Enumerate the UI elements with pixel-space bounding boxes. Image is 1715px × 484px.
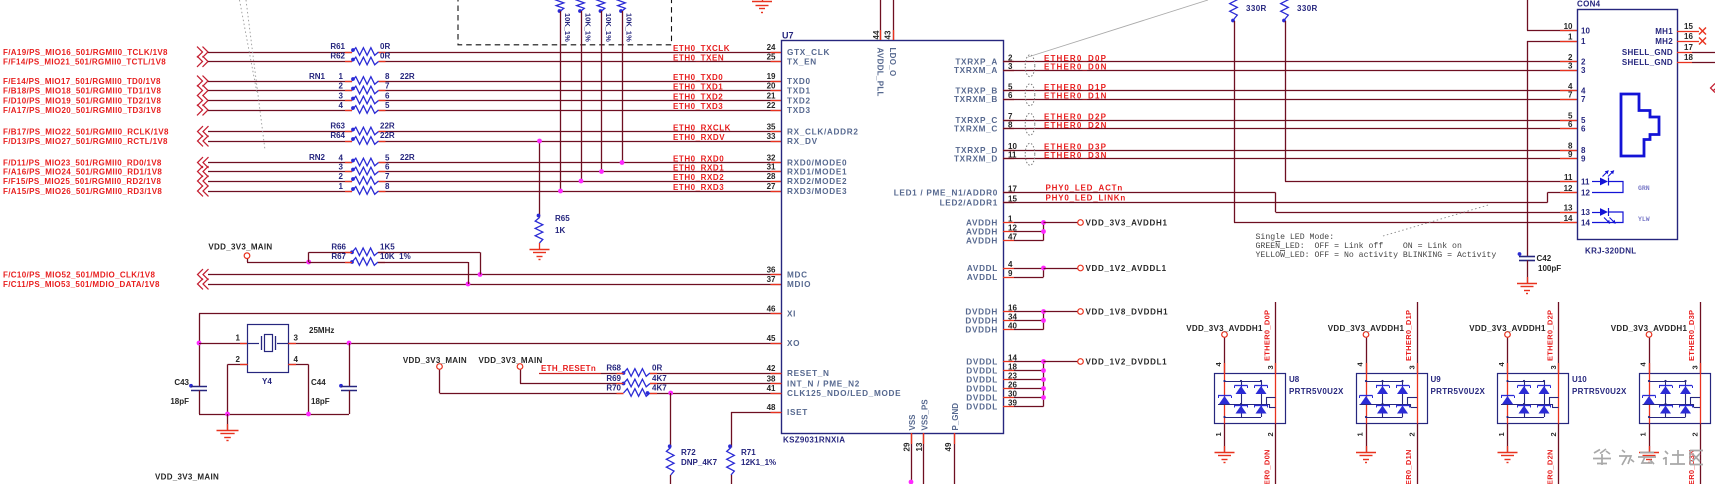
svg-text:F/D11/PS_MIO23_501/RGMII0_RD0/: F/D11/PS_MIO23_501/RGMII0_RD0/1V8 xyxy=(3,158,162,167)
svg-text:U9: U9 xyxy=(1431,375,1442,384)
svg-text:7: 7 xyxy=(385,82,390,91)
svg-text:Single LED Mode:: Single LED Mode: xyxy=(1256,232,1335,242)
svg-text:9: 9 xyxy=(1008,269,1013,278)
svg-text:1: 1 xyxy=(236,333,241,342)
svg-text:1K: 1K xyxy=(555,226,565,235)
svg-text:F/C11/PS_MIO53_501/MDIO_DATA/1: F/C11/PS_MIO53_501/MDIO_DATA/1V8 xyxy=(3,280,160,289)
svg-text:7: 7 xyxy=(1581,95,1586,104)
svg-text:27: 27 xyxy=(767,182,776,191)
svg-text:0R: 0R xyxy=(652,364,662,373)
svg-text:13: 13 xyxy=(1581,208,1590,217)
svg-text:ETH0_RXDV: ETH0_RXDV xyxy=(673,133,725,142)
svg-text:C42: C42 xyxy=(1537,254,1552,263)
svg-text:4: 4 xyxy=(339,101,344,110)
svg-text:F/A15/PS_MIO26_501/RGMII0_RD3/: F/A15/PS_MIO26_501/RGMII0_RD3/1V8 xyxy=(3,187,162,196)
svg-text:10K_1%: 10K_1% xyxy=(563,13,572,42)
svg-text:ETH0_TXD0: ETH0_TXD0 xyxy=(673,73,723,82)
svg-text:6: 6 xyxy=(385,163,390,172)
svg-text:F/F14/PS_MIO21_501/RGMII0_TCTL: F/F14/PS_MIO21_501/RGMII0_TCTL/1V8 xyxy=(3,57,166,66)
svg-text:ETHER0_D2N: ETHER0_D2N xyxy=(1546,449,1555,484)
svg-text:2: 2 xyxy=(339,172,344,181)
svg-text:RESET_N: RESET_N xyxy=(787,369,830,378)
svg-text:2: 2 xyxy=(1266,432,1275,436)
svg-text:SHELL_GND: SHELL_GND xyxy=(1622,58,1673,67)
svg-text:VDD_1V8_DVDDH1: VDD_1V8_DVDDH1 xyxy=(1086,308,1169,317)
svg-text:100pF: 100pF xyxy=(1538,264,1561,273)
svg-text:DVDDL: DVDDL xyxy=(966,402,998,411)
svg-text:TXD0: TXD0 xyxy=(787,77,811,86)
svg-text:25MHz: 25MHz xyxy=(309,326,334,335)
svg-text:ETH0_TXCLK: ETH0_TXCLK xyxy=(673,44,730,53)
svg-text:9: 9 xyxy=(1568,150,1573,159)
svg-text:48: 48 xyxy=(767,403,776,412)
svg-text:11: 11 xyxy=(1564,173,1573,182)
svg-text:F/D13/PS_MIO27_501/RGMII0_RCTL: F/D13/PS_MIO27_501/RGMII0_RCTL/1V8 xyxy=(3,137,168,146)
svg-text:VDD_3V3_AVDDH1: VDD_3V3_AVDDH1 xyxy=(1186,324,1263,333)
svg-text:3: 3 xyxy=(294,333,299,342)
svg-text:DVDDL: DVDDL xyxy=(966,375,998,384)
svg-text:ETHER0_D1N: ETHER0_D1N xyxy=(1404,449,1413,484)
svg-text:16: 16 xyxy=(1684,32,1693,41)
svg-text:LED1 / PME_N1/ADDR0: LED1 / PME_N1/ADDR0 xyxy=(894,188,998,197)
svg-text:18pF: 18pF xyxy=(170,397,189,406)
svg-text:2: 2 xyxy=(1549,432,1558,436)
svg-text:3: 3 xyxy=(1691,365,1700,369)
svg-text:VDD_3V3_MAIN: VDD_3V3_MAIN xyxy=(208,242,272,251)
svg-text:17: 17 xyxy=(1684,43,1693,52)
svg-text:ETH0_TXD3: ETH0_TXD3 xyxy=(673,102,723,111)
svg-text:42: 42 xyxy=(767,364,776,373)
svg-text:8: 8 xyxy=(385,72,390,81)
svg-text:29: 29 xyxy=(903,442,912,451)
svg-text:RN2: RN2 xyxy=(309,153,326,162)
svg-text:ETHER0_D1N: ETHER0_D1N xyxy=(1044,91,1108,100)
svg-text:4K7: 4K7 xyxy=(652,384,667,393)
svg-text:ETH0_TXEN: ETH0_TXEN xyxy=(673,53,724,62)
svg-text:U7: U7 xyxy=(782,31,794,41)
svg-text:R67: R67 xyxy=(331,252,346,261)
svg-text:2: 2 xyxy=(1408,432,1417,436)
svg-text:TX_EN: TX_EN xyxy=(787,57,817,66)
svg-text:R68: R68 xyxy=(606,364,621,373)
svg-text:ETHER0_D3N: ETHER0_D3N xyxy=(1687,449,1696,484)
svg-text:R70: R70 xyxy=(606,384,621,393)
svg-text:44: 44 xyxy=(872,30,881,39)
svg-text:41: 41 xyxy=(767,384,776,393)
svg-text:4K7: 4K7 xyxy=(652,374,667,383)
svg-text:VDD_3V3_AVDDH1: VDD_3V3_AVDDH1 xyxy=(1328,324,1405,333)
svg-text:RXD1/MODE1: RXD1/MODE1 xyxy=(787,167,847,176)
svg-text:13: 13 xyxy=(1564,204,1573,213)
svg-text:11: 11 xyxy=(1581,177,1590,186)
svg-text:45: 45 xyxy=(767,334,776,343)
svg-text:3: 3 xyxy=(1266,365,1275,369)
svg-text:18: 18 xyxy=(1684,53,1693,62)
svg-text:U10: U10 xyxy=(1572,375,1587,384)
svg-text:RX_DV: RX_DV xyxy=(787,137,818,146)
svg-text:CON4: CON4 xyxy=(1577,0,1601,9)
svg-text:LDO_O: LDO_O xyxy=(888,48,897,77)
svg-text:F/F15/PS_MIO25_501/RGMII0_RD2/: F/F15/PS_MIO25_501/RGMII0_RD2/1V8 xyxy=(3,177,161,186)
svg-text:DVDDH: DVDDH xyxy=(965,316,998,325)
svg-text:MDC: MDC xyxy=(787,270,808,279)
svg-text:3: 3 xyxy=(1568,62,1573,71)
svg-text:PHY0_LED_LINKn: PHY0_LED_LINKn xyxy=(1046,194,1127,203)
svg-text:6: 6 xyxy=(1581,124,1586,133)
svg-text:10K 1%: 10K 1% xyxy=(380,252,411,261)
svg-text:1: 1 xyxy=(1581,37,1586,46)
svg-text:PRTR5V0U2X: PRTR5V0U2X xyxy=(1572,387,1627,396)
svg-text:GRN: GRN xyxy=(1638,185,1650,192)
svg-text:MH2: MH2 xyxy=(1655,37,1673,46)
svg-text:ETHER0_D0P: ETHER0_D0P xyxy=(1263,310,1272,361)
svg-text:6: 6 xyxy=(1008,91,1013,100)
svg-text:KRJ-320DNL: KRJ-320DNL xyxy=(1585,247,1636,256)
svg-text:R64: R64 xyxy=(330,131,345,140)
svg-text:38: 38 xyxy=(767,375,776,384)
svg-text:10: 10 xyxy=(1564,22,1573,31)
svg-text:1: 1 xyxy=(1639,432,1648,436)
svg-text:14: 14 xyxy=(1581,218,1590,227)
svg-text:6: 6 xyxy=(1568,120,1573,129)
svg-text:33: 33 xyxy=(767,132,776,141)
svg-text:10K_1%: 10K_1% xyxy=(625,13,634,42)
svg-text:36: 36 xyxy=(767,266,776,275)
svg-text:DVDDH: DVDDH xyxy=(965,307,998,316)
svg-text:INT_N / PME_N2: INT_N / PME_N2 xyxy=(787,379,860,388)
svg-text:1: 1 xyxy=(339,72,344,81)
svg-text:VDD_3V3_AVDDH1: VDD_3V3_AVDDH1 xyxy=(1469,324,1546,333)
svg-text:R61: R61 xyxy=(330,42,345,51)
svg-text:ETH0_RXCLK: ETH0_RXCLK xyxy=(673,123,731,132)
svg-text:R72: R72 xyxy=(681,448,696,457)
svg-text:7: 7 xyxy=(385,172,390,181)
svg-text:ETH_RESETn: ETH_RESETn xyxy=(541,364,596,373)
svg-text:RXD2/MODE2: RXD2/MODE2 xyxy=(787,177,847,186)
svg-text:18pF: 18pF xyxy=(311,397,330,406)
svg-text:F/D10/PS_MIO19_501/RGMII0_TD2/: F/D10/PS_MIO19_501/RGMII0_TD2/1V8 xyxy=(3,96,161,105)
svg-text:DVDDL: DVDDL xyxy=(966,357,998,366)
svg-text:10: 10 xyxy=(1581,26,1590,35)
svg-text:14: 14 xyxy=(1564,214,1573,223)
svg-text:ETH0_RXD1: ETH0_RXD1 xyxy=(673,163,724,172)
svg-text:3: 3 xyxy=(339,92,344,101)
svg-text:XO: XO xyxy=(787,339,800,348)
svg-text:7: 7 xyxy=(1568,91,1573,100)
svg-text:F/A17/PS_MIO20_501/RGMII0_TD3/: F/A17/PS_MIO20_501/RGMII0_TD3/1V8 xyxy=(3,106,161,115)
svg-text:1: 1 xyxy=(1568,33,1573,42)
svg-text:6: 6 xyxy=(385,92,390,101)
svg-text:1: 1 xyxy=(1214,432,1223,436)
svg-text:10K_1%: 10K_1% xyxy=(584,13,593,42)
svg-text:F/A16/PS_MIO24_501/RGMII0_RD1/: F/A16/PS_MIO24_501/RGMII0_RD1/1V8 xyxy=(3,167,162,176)
svg-text:25: 25 xyxy=(767,53,776,62)
svg-text:AVDDL: AVDDL xyxy=(967,264,998,273)
svg-text:KSZ9031RNXIA: KSZ9031RNXIA xyxy=(783,436,845,445)
svg-text:5: 5 xyxy=(385,101,390,110)
svg-text:GREEN_LED: OFF = Link off: GREEN_LED: OFF = Link off ON = Link on xyxy=(1256,241,1462,251)
svg-text:37: 37 xyxy=(767,275,776,284)
svg-text:VSS_PS: VSS_PS xyxy=(921,399,930,431)
svg-text:VDD_3V3_MAIN: VDD_3V3_MAIN xyxy=(155,473,219,482)
svg-text:PHY0_LED_ACTn: PHY0_LED_ACTn xyxy=(1046,184,1124,193)
svg-text:R63: R63 xyxy=(330,121,345,130)
svg-text:RX_CLK/ADDR2: RX_CLK/ADDR2 xyxy=(787,127,859,136)
svg-text:GTX_CLK: GTX_CLK xyxy=(787,48,830,57)
svg-text:SHELL_GND: SHELL_GND xyxy=(1622,48,1673,57)
svg-text:U8: U8 xyxy=(1289,375,1300,384)
svg-text:MH1: MH1 xyxy=(1655,27,1673,36)
svg-text:3: 3 xyxy=(1408,365,1417,369)
svg-text:VDD_1V2_AVDDL1: VDD_1V2_AVDDL1 xyxy=(1086,264,1167,273)
svg-text:R62: R62 xyxy=(330,51,345,60)
svg-text:ETH0_RXD3: ETH0_RXD3 xyxy=(673,183,724,192)
svg-text:12: 12 xyxy=(1581,188,1590,197)
svg-text:VDD_3V3_AVDDH1: VDD_3V3_AVDDH1 xyxy=(1611,324,1688,333)
svg-text:VDD_1V2_DVDDL1: VDD_1V2_DVDDL1 xyxy=(1086,358,1168,367)
svg-text:C43: C43 xyxy=(174,378,189,387)
svg-text:AVDDH: AVDDH xyxy=(966,227,998,236)
svg-text:ETHER0_D2P: ETHER0_D2P xyxy=(1546,310,1555,361)
svg-text:4: 4 xyxy=(294,355,299,364)
svg-text:4: 4 xyxy=(339,154,344,163)
svg-text:330R: 330R xyxy=(1297,4,1318,13)
svg-text:3: 3 xyxy=(1581,66,1586,75)
svg-text:22R: 22R xyxy=(400,153,415,162)
svg-text:3: 3 xyxy=(1549,365,1558,369)
svg-text:0R: 0R xyxy=(380,51,390,60)
svg-text:R65: R65 xyxy=(555,214,570,223)
svg-text:35: 35 xyxy=(767,123,776,132)
svg-text:1K5: 1K5 xyxy=(380,242,395,251)
svg-text:1: 1 xyxy=(339,182,344,191)
svg-text:28: 28 xyxy=(767,172,776,181)
svg-text:46: 46 xyxy=(767,305,776,314)
svg-text:TXRXM_C: TXRXM_C xyxy=(954,124,998,133)
svg-text:1: 1 xyxy=(1497,432,1506,436)
svg-text:ETH0_TXD2: ETH0_TXD2 xyxy=(673,92,723,101)
svg-text:330R: 330R xyxy=(1246,4,1267,13)
svg-text:12K1_1%: 12K1_1% xyxy=(741,458,776,467)
svg-text:2: 2 xyxy=(339,82,344,91)
svg-text:RN1: RN1 xyxy=(309,72,326,81)
svg-text:F/E14/PS_MIO17_501/RGMII0_TD0/: F/E14/PS_MIO17_501/RGMII0_TD0/1V8 xyxy=(3,77,161,86)
svg-text:ETHER0_D3N: ETHER0_D3N xyxy=(1044,151,1108,160)
svg-text:4: 4 xyxy=(1008,260,1013,269)
svg-text:TXRXM_A: TXRXM_A xyxy=(954,66,998,75)
svg-text:R69: R69 xyxy=(606,374,621,383)
svg-text:LED2/ADDR1: LED2/ADDR1 xyxy=(940,198,998,207)
svg-text:TXD2: TXD2 xyxy=(787,96,811,105)
svg-text:0R: 0R xyxy=(380,42,390,51)
svg-text:PRTR5V0U2X: PRTR5V0U2X xyxy=(1289,387,1344,396)
svg-text:PRTR5V0U2X: PRTR5V0U2X xyxy=(1431,387,1486,396)
svg-text:15: 15 xyxy=(1684,22,1693,31)
svg-text:ETH0_TXD1: ETH0_TXD1 xyxy=(673,82,723,91)
svg-text:22R: 22R xyxy=(380,131,395,140)
svg-text:DVDDL: DVDDL xyxy=(966,366,998,375)
svg-text:MDIO: MDIO xyxy=(787,280,811,289)
svg-text:F/A19/PS_MIO16_501/RGMII0_TCLK: F/A19/PS_MIO16_501/RGMII0_TCLK/1V8 xyxy=(3,48,168,57)
svg-text:32: 32 xyxy=(767,154,776,163)
svg-text:5: 5 xyxy=(385,154,390,163)
svg-text:RXD3/MODE3: RXD3/MODE3 xyxy=(787,187,847,196)
svg-text:22R: 22R xyxy=(400,72,415,81)
svg-text:24: 24 xyxy=(767,43,776,52)
svg-text:22: 22 xyxy=(767,101,776,110)
svg-text:2: 2 xyxy=(236,355,241,364)
svg-text:ETHER0_D1P: ETHER0_D1P xyxy=(1404,310,1413,361)
svg-text:TXD1: TXD1 xyxy=(787,86,811,95)
svg-text:XI: XI xyxy=(787,309,796,318)
svg-text:R66: R66 xyxy=(331,242,346,251)
svg-text:DVDDH: DVDDH xyxy=(965,325,998,334)
svg-text:ETH0_RXD2: ETH0_RXD2 xyxy=(673,173,724,182)
svg-text:Y4: Y4 xyxy=(262,377,272,386)
svg-text:8: 8 xyxy=(385,182,390,191)
svg-text:P_GND: P_GND xyxy=(951,403,960,431)
svg-text:F/B18/PS_MIO18_501/RGMII0_TD1/: F/B18/PS_MIO18_501/RGMII0_TD1/1V8 xyxy=(3,86,161,95)
svg-text:VDD_3V3_MAIN: VDD_3V3_MAIN xyxy=(479,356,543,365)
svg-text:3: 3 xyxy=(1008,62,1013,71)
svg-text:43: 43 xyxy=(884,30,893,39)
svg-text:VDD_3V3_AVDDH1: VDD_3V3_AVDDH1 xyxy=(1086,219,1168,228)
svg-text:ETH0_RXD0: ETH0_RXD0 xyxy=(673,154,724,163)
svg-text:C44: C44 xyxy=(311,378,326,387)
svg-text:31: 31 xyxy=(767,163,776,172)
svg-text:20: 20 xyxy=(767,82,776,91)
svg-text:F/B17/PS_MIO22_501/RGMII0_RCLK: F/B17/PS_MIO22_501/RGMII0_RCLK/1V8 xyxy=(3,127,169,136)
svg-text:2: 2 xyxy=(1691,432,1700,436)
svg-text:ETHER0_D0N: ETHER0_D0N xyxy=(1263,449,1272,484)
svg-text:19: 19 xyxy=(767,72,776,81)
svg-text:9: 9 xyxy=(1581,154,1586,163)
svg-text:TXD3: TXD3 xyxy=(787,106,811,115)
svg-text:F/C10/PS_MIO52_501/MDIO_CLK/1V: F/C10/PS_MIO52_501/MDIO_CLK/1V8 xyxy=(3,270,155,279)
svg-text:AVDDH: AVDDH xyxy=(966,218,998,227)
svg-text:1: 1 xyxy=(1356,432,1365,436)
svg-text:YLW: YLW xyxy=(1638,216,1650,223)
svg-text:TXRXM_D: TXRXM_D xyxy=(954,154,998,163)
svg-text:RXD0/MODE0: RXD0/MODE0 xyxy=(787,158,847,167)
svg-text:AVDDH: AVDDH xyxy=(966,236,998,245)
svg-text:AVDDL: AVDDL xyxy=(967,273,998,282)
svg-text:DVDDL: DVDDL xyxy=(966,384,998,393)
svg-text:3: 3 xyxy=(339,163,344,172)
svg-text:49: 49 xyxy=(944,442,953,451)
svg-text:VSS: VSS xyxy=(908,414,917,431)
svg-text:YELLOW_LED: OFF = No activity: YELLOW_LED: OFF = No activity BLINKING =… xyxy=(1256,250,1497,260)
svg-text:22R: 22R xyxy=(380,121,395,130)
svg-text:AVDDL_PLL: AVDDL_PLL xyxy=(876,48,885,97)
svg-text:VDD_3V3_MAIN: VDD_3V3_MAIN xyxy=(403,356,467,365)
svg-text:12: 12 xyxy=(1564,184,1573,193)
svg-text:CLK125_NDO/LED_MODE: CLK125_NDO/LED_MODE xyxy=(787,389,901,398)
svg-text:TXRXM_B: TXRXM_B xyxy=(954,95,998,104)
svg-text:10K_1%: 10K_1% xyxy=(604,13,613,42)
svg-text:13: 13 xyxy=(915,442,924,451)
svg-text:21: 21 xyxy=(767,92,776,101)
svg-text:DVDDL: DVDDL xyxy=(966,393,998,402)
svg-text:R71: R71 xyxy=(741,448,756,457)
svg-text:DNP_4K7: DNP_4K7 xyxy=(681,458,718,467)
svg-text:ETHER0_D0N: ETHER0_D0N xyxy=(1044,62,1108,71)
svg-text:ETHER0_D2N: ETHER0_D2N xyxy=(1044,121,1108,130)
svg-text:ISET: ISET xyxy=(787,408,808,417)
svg-text:ETHER0_D3P: ETHER0_D3P xyxy=(1687,310,1696,361)
